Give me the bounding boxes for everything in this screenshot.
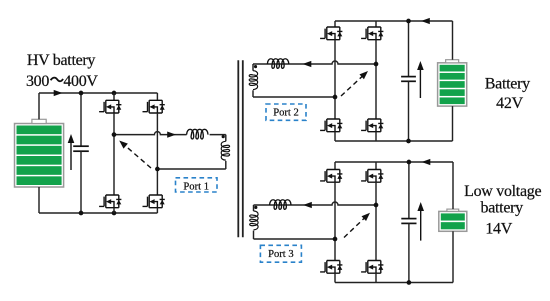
battery B1 HV [15, 119, 64, 187]
wire port1 bottom rail [39, 212, 157, 214]
wire port3 left leg middle [334, 182, 336, 260]
junction port1 right leg midpoint [155, 167, 160, 172]
wire port1 left leg middle [113, 113, 115, 195]
wire port3 top rail [335, 161, 453, 163]
arrow current port2 top rail [421, 18, 430, 24]
wire T1 secondary2 top lead [252, 64, 254, 71]
wire battery B1 bottom lead [38, 187, 40, 213]
junction port2 left leg midpoint [333, 95, 338, 100]
wire port2 left leg upper stub [334, 21, 336, 27]
wire port2 left leg middle [334, 40, 336, 119]
dashed arrow port1 bridge voltage [117, 138, 151, 168]
arrow current port3 top rail [422, 159, 431, 165]
transistor Q2 [143, 100, 165, 113]
wire port3 right leg middle2 [375, 205, 377, 261]
wire T1 secondary2 bottom lead [252, 90, 254, 97]
wire capacitor C2 bottom lead [408, 81, 410, 141]
battery B3 14V [439, 209, 467, 231]
junction port3 bottom rail / C3 [407, 280, 412, 285]
inductor L2 [267, 59, 288, 69]
transistor Q3 [99, 195, 121, 208]
transformer T1 primary winding [221, 141, 229, 160]
wire port1 left leg lower stub [113, 208, 115, 213]
port label Port 1 [176, 178, 218, 193]
wire port1 bridge mid to L1 (hop over right leg) [114, 132, 187, 135]
svg-text:Port 2: Port 2 [273, 107, 299, 118]
wire battery B1 top lead [38, 93, 40, 119]
transistor Q4 [143, 195, 165, 208]
svg-text:400V: 400V [63, 73, 98, 90]
junction port3 top rail / C3 [407, 160, 412, 165]
inductor L1 [187, 129, 208, 139]
wire T1 secondary3 bottom lead [253, 231, 255, 239]
transistor Q11 [320, 261, 342, 274]
transistor Q9 [320, 170, 342, 183]
wire port3 left leg upper stub [334, 162, 336, 170]
wire port1 left leg upper stub [113, 93, 115, 100]
wire port2 lower mid wire [253, 96, 335, 98]
port label Port 2 [266, 104, 306, 120]
wire port2 right leg lower stub [375, 132, 377, 141]
inductor L3 [270, 200, 291, 210]
junction port2 right leg midpoint [374, 62, 379, 67]
junction port1 top rail / C1 [79, 91, 84, 96]
transistor Q12 [361, 261, 383, 274]
transistor Q6 [361, 27, 383, 40]
wire port2 bottom rail [335, 140, 453, 142]
transformer T1 secondary winding (port3) [250, 211, 258, 230]
junction port3 right leg midpoint [374, 203, 379, 208]
svg-text:14V: 14V [485, 220, 512, 237]
svg-text:battery: battery [481, 199, 524, 216]
wire battery B2 bottom lead [452, 106, 454, 141]
polarity dot T1 secondary2 [254, 65, 257, 68]
svg-text:Battery: Battery [485, 75, 530, 92]
transistor Q8 [361, 119, 383, 132]
wire port1 right leg middle [156, 113, 158, 195]
svg-text:Port 3: Port 3 [268, 249, 294, 260]
transistor Q7 [320, 119, 342, 132]
wire T1-port3 top mid (hop over left leg) [254, 202, 377, 205]
wire port3 lower mid wire [254, 238, 336, 240]
junction port1 bottom rail / left leg [112, 211, 117, 216]
svg-text:HV battery: HV battery [27, 52, 96, 69]
wire port2 left leg lower stub [334, 132, 336, 141]
wire capacitor C2 top lead [408, 21, 410, 77]
transistor Q5 [320, 27, 342, 40]
wire port1 top rail [39, 92, 157, 94]
junction port1 bottom rail / C1 [79, 211, 84, 216]
wire T1-port2 top mid (hop over left leg) [253, 61, 376, 64]
junction port1 left leg midpoint [112, 132, 117, 137]
transistor Q1 [99, 100, 121, 113]
polarity dot T1 secondary3 [254, 206, 257, 209]
arrow voltage B1 [70, 140, 72, 171]
capacitor C2 [401, 77, 416, 82]
arrow current port2 mid wire [303, 61, 312, 67]
junction port3 left leg midpoint [333, 237, 338, 242]
junction port1 top rail / left leg [112, 91, 117, 96]
wire T1 primary top lead [225, 135, 227, 142]
wire port1 right leg lower stub [156, 208, 158, 213]
wire port3 right leg upper stub [375, 162, 377, 170]
wire port2 right leg middle [375, 40, 377, 119]
wire port1 lower mid wire [157, 168, 225, 170]
wire battery B2 top lead [452, 21, 454, 60]
wire port1 right leg upper stub [156, 93, 158, 100]
arrow current port3 mid wire [303, 202, 312, 208]
wire port2 top rail [335, 20, 453, 22]
label 300~400V [26, 73, 98, 90]
wire battery B3 top lead [452, 162, 454, 209]
wire capacitor C1 top lead [80, 93, 82, 146]
wire capacitor C3 top lead [408, 162, 410, 219]
wire port3 bottom rail [335, 282, 453, 284]
svg-text:42V: 42V [496, 95, 523, 112]
battery B2 42V [438, 60, 467, 106]
svg-text:Port 1: Port 1 [183, 181, 209, 192]
wire capacitor C3 bottom lead [408, 223, 410, 282]
transistor Q10 [361, 170, 383, 183]
capacitor C3 [401, 219, 416, 224]
dashed arrow port2 bridge voltage [341, 69, 370, 96]
transformer T1 core [237, 60, 239, 237]
wire port3 right leg lower stub [375, 273, 377, 282]
transformer T1 secondary winding (port2) [249, 71, 257, 90]
wire port2 right leg upper stub [375, 21, 377, 27]
polarity dot T1 primary [222, 135, 225, 138]
arrow current port1 top rail [54, 90, 63, 96]
junction port2 top rail / C2 [406, 19, 411, 24]
wire T1 secondary3 top lead [253, 205, 255, 211]
wire port3 right leg middle [375, 182, 377, 205]
wire L1 to transformer T1 primary [210, 134, 226, 136]
wire T1 primary bottom lead [225, 161, 227, 169]
port label Port 3 [260, 245, 301, 262]
arrow current port1 mid wire [167, 132, 176, 138]
arrow voltage B2 [419, 66, 421, 98]
dashed arrow port3 bridge voltage [344, 210, 372, 237]
arrow voltage B3 [420, 207, 422, 241]
wire capacitor C1 bottom lead [80, 151, 82, 213]
capacitor C1 [73, 146, 89, 151]
wire battery B3 bottom lead [452, 231, 454, 282]
junction port2 bottom rail / C2 [406, 139, 411, 144]
svg-text:Low voltage: Low voltage [464, 183, 541, 200]
wire port3 left leg lower stub [334, 273, 336, 282]
svg-text:300: 300 [26, 73, 49, 90]
